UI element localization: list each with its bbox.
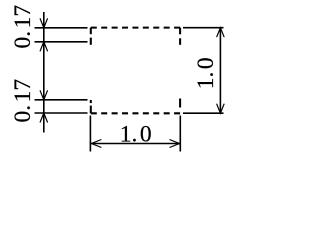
svg-text:1.0: 1.0	[120, 121, 152, 147]
svg-text:0.17: 0.17	[10, 79, 36, 123]
svg-text:1.0: 1.0	[193, 57, 219, 89]
svg-text:0.17: 0.17	[10, 5, 36, 49]
